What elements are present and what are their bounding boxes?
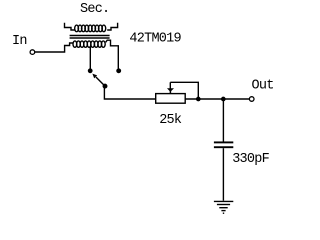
transformer T1 primary winding (bottom) — [73, 41, 105, 47]
wire potentiometer to output — [185, 98, 249, 100]
transformer T1 core — [70, 36, 110, 39]
wire primary center tap to switch left contact — [89, 47, 91, 69]
svg-text:330pF: 330pF — [232, 152, 269, 167]
switch SW1 blade arrow — [92, 74, 105, 87]
transformer T1 secondary winding (top) — [75, 25, 106, 32]
transformer T1 top-left lead stub — [65, 23, 75, 30]
switch SW1 pole contact — [103, 84, 108, 89]
junction pot wiper/output — [196, 97, 201, 102]
wire primary right lead to switch right contact — [106, 40, 119, 68]
capacitor C1 bottom plate — [214, 146, 233, 148]
switch SW1 left contact — [88, 68, 93, 73]
wire switch pole to potentiometer — [104, 88, 156, 100]
wire In terminal to primary left lead — [35, 43, 73, 52]
wire wiper to right terminal of potentiometer — [170, 82, 198, 99]
switch SW1 right contact — [116, 68, 121, 73]
svg-text:Out: Out — [252, 79, 274, 94]
svg-text:25k: 25k — [159, 113, 182, 128]
svg-text:In: In — [12, 34, 27, 49]
input terminal — [30, 50, 35, 55]
svg-text:42TM019: 42TM019 — [129, 32, 181, 47]
junction capacitor/output — [221, 97, 226, 102]
transformer T1 top-right lead stub — [107, 23, 117, 30]
potentiometer R1 body — [156, 94, 186, 104]
ground — [214, 201, 233, 213]
wire junction to capacitor C1 — [222, 99, 224, 142]
wire capacitor C1 to ground — [222, 148, 224, 201]
capacitor C1 top plate — [214, 141, 233, 143]
svg-text:Sec.: Sec. — [80, 2, 109, 17]
output terminal — [249, 97, 254, 102]
potentiometer R1 wiper arrow — [167, 82, 174, 93]
